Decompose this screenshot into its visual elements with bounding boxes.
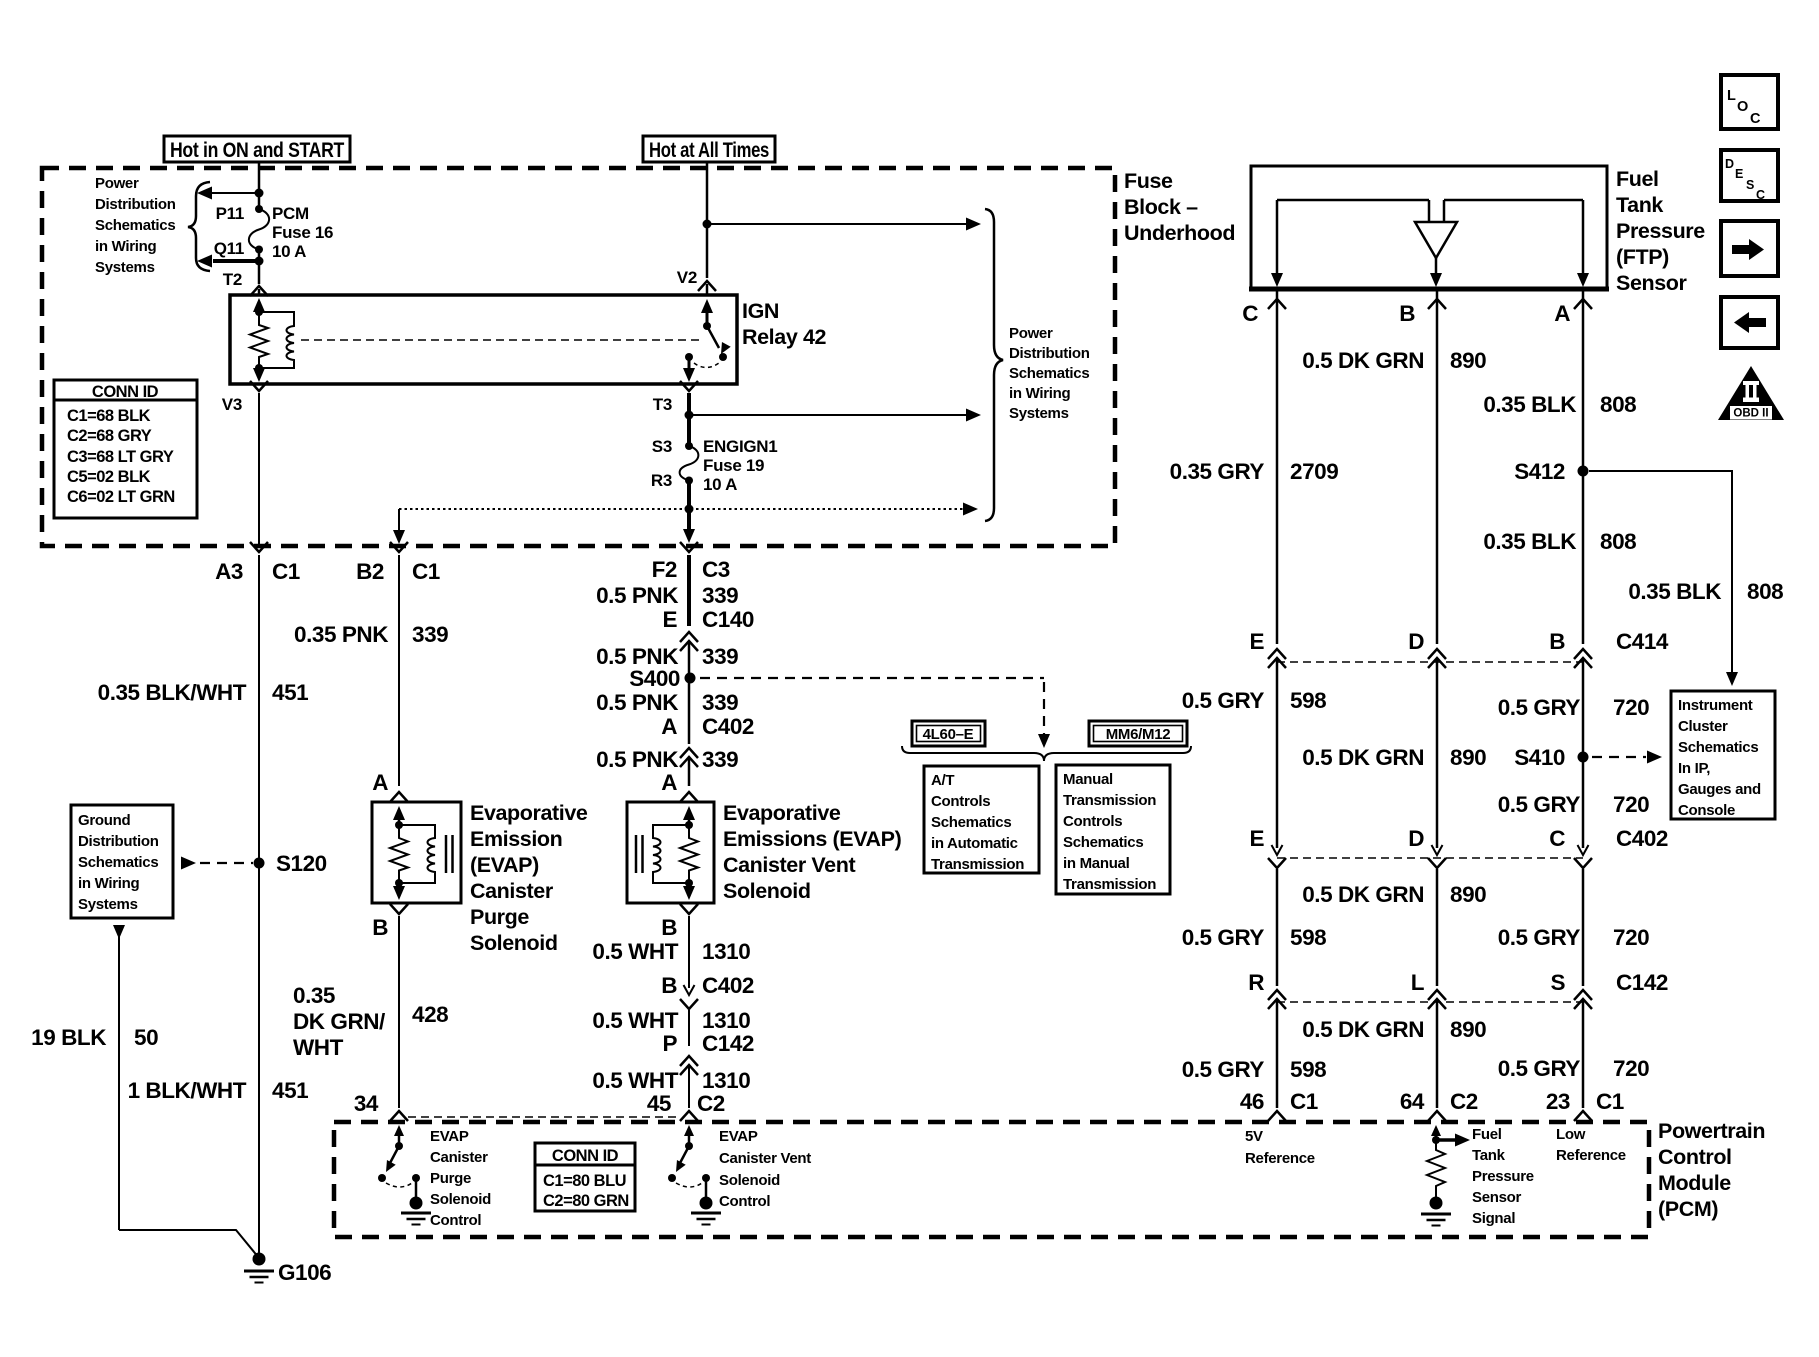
svg-text:C414: C414 — [1616, 629, 1669, 654]
wire: 1310 WHT segment C402 to C142 — [688, 1010, 690, 1046]
svg-text:A/T: A/T — [931, 772, 954, 789]
svg-text:1310: 1310 — [702, 1068, 750, 1093]
connector A3/C1 — [250, 542, 268, 552]
PCM purge driver switch — [378, 1125, 420, 1199]
PCM FTP signal input — [1427, 1125, 1470, 1198]
svg-text:C402: C402 — [702, 714, 754, 739]
resistor in relay — [250, 312, 268, 368]
connector chevron T2 — [250, 286, 268, 296]
label: Power Distribution Schematics in Wiring Systems (left) — [95, 175, 176, 276]
svg-text:Purge: Purge — [430, 1170, 471, 1187]
node: MM6/M12 tag box — [1089, 721, 1187, 746]
svg-text:C1: C1 — [412, 559, 440, 584]
svg-text:Distribution: Distribution — [78, 833, 159, 850]
svg-text:Pressure: Pressure — [1472, 1168, 1534, 1185]
connector chevron pin B vent — [680, 904, 698, 914]
svg-text:V3: V3 — [222, 395, 242, 414]
svg-text:S400: S400 — [629, 666, 680, 691]
FTP internal rail — [1277, 200, 1583, 222]
svg-text:B: B — [1399, 301, 1415, 326]
connector chevron pin B — [1428, 299, 1446, 309]
wire: S412 branch to instrument cluster — [1589, 471, 1738, 686]
wire: 1310 WHT segment C142 to PCM pin 45 — [688, 1066, 690, 1108]
label: 0.35 GRY | 2709 — [1170, 459, 1339, 484]
wire: C142 to PCM (col B) — [1436, 1000, 1439, 1108]
svg-text:0.5 GRY: 0.5 GRY — [1182, 1057, 1265, 1082]
svg-text:Power: Power — [1009, 325, 1053, 342]
svg-text:Emissions (EVAP): Emissions (EVAP) — [723, 827, 902, 851]
svg-text:339: 339 — [702, 644, 738, 669]
wire: dotted line corner down to B2 — [393, 509, 405, 544]
svg-text:34: 34 — [354, 1091, 379, 1116]
connector chevron pin 46 — [1268, 1111, 1286, 1121]
node: CONN ID table (PCM) — [535, 1143, 635, 1211]
svg-text:in Wiring: in Wiring — [78, 875, 139, 892]
svg-text:Powertrain: Powertrain — [1658, 1119, 1765, 1143]
svg-text:2709: 2709 — [1290, 459, 1338, 484]
svg-text:P: P — [662, 1031, 677, 1056]
connector F2/C3 — [680, 542, 698, 552]
svg-text:A: A — [661, 714, 677, 739]
svg-text:Power: Power — [95, 175, 139, 192]
label: pin 45 | C2 — [647, 1091, 725, 1116]
label: 0.5 GRY | 720 (col A, above S410) — [1498, 695, 1650, 720]
svg-text:0.5 DK GRN: 0.5 DK GRN — [1302, 882, 1424, 907]
svg-text:C2=68 GRY: C2=68 GRY — [67, 427, 152, 445]
svg-text:Canister: Canister — [430, 1149, 488, 1166]
label: 0.35 BLK | 808 (above S412) — [1483, 392, 1636, 417]
ground G106 — [244, 1253, 274, 1283]
svg-text:Transmission: Transmission — [1063, 876, 1156, 893]
connector C414 row — [1249, 629, 1668, 668]
sensor B1: FTP sensor box — [1249, 166, 1609, 290]
svg-text:339: 339 — [702, 690, 738, 715]
svg-text:0.5 GRY: 0.5 GRY — [1182, 688, 1265, 713]
FTP transducer triangle — [1415, 222, 1457, 258]
svg-text:(FTP): (FTP) — [1616, 245, 1669, 269]
svg-text:C6=02 LT GRN: C6=02 LT GRN — [67, 488, 175, 506]
wire: feed arrow to power distribution (top) — [707, 218, 981, 231]
label: 0.5 WHT | 1310 (above C402) — [592, 939, 750, 964]
wire: V3 down to A3 — [258, 393, 260, 546]
FTP pin B leg — [1430, 258, 1442, 287]
svg-text:B2: B2 — [356, 559, 384, 584]
svg-text:Tank: Tank — [1472, 1147, 1506, 1164]
svg-text:0.5 PNK: 0.5 PNK — [596, 583, 679, 608]
label: 0.5 WHT | 1310 (above C142) — [592, 1008, 750, 1033]
svg-text:Low: Low — [1556, 1126, 1586, 1143]
svg-text:Controls: Controls — [1063, 813, 1122, 830]
svg-text:Control: Control — [430, 1212, 481, 1229]
svg-text:Schematics: Schematics — [78, 854, 158, 871]
svg-text:0.35: 0.35 — [293, 983, 335, 1008]
svg-text:R: R — [1248, 970, 1264, 995]
svg-text:S412: S412 — [1514, 459, 1565, 484]
label: pin 64 | C2 — [1400, 1089, 1478, 1114]
wire: C142 to PCM (col C) — [1276, 1000, 1279, 1108]
node: A/T Controls Schematics box — [924, 766, 1039, 873]
relay box IGN Relay 42 — [230, 295, 737, 384]
vent solenoid terminal arrow down — [683, 883, 695, 900]
svg-text:Emission: Emission — [470, 827, 562, 851]
label: 0.5 GRY | 598 (col C low) — [1182, 1057, 1327, 1082]
connector P/C142 — [662, 1031, 754, 1075]
svg-text:19 BLK: 19 BLK — [31, 1025, 107, 1050]
svg-text:720: 720 — [1613, 792, 1649, 817]
connector B/C402 (vent control) — [661, 973, 754, 1009]
svg-text:0.5 WHT: 0.5 WHT — [592, 939, 678, 964]
connector E/C140 — [662, 607, 754, 651]
wire: C142 to PCM (col A) — [1582, 1000, 1585, 1108]
svg-text:Solenoid: Solenoid — [430, 1191, 491, 1208]
svg-text:Fuel: Fuel — [1472, 1126, 1502, 1143]
junction: T3 feed takeoff — [685, 411, 694, 420]
label: 0.5 PNK | 339 (below C402) — [596, 747, 738, 772]
svg-text:E: E — [1735, 167, 1743, 181]
svg-text:C: C — [1756, 188, 1765, 202]
svg-text:O: O — [1737, 99, 1748, 115]
svg-text:CONN ID: CONN ID — [92, 383, 159, 401]
svg-text:598: 598 — [1290, 688, 1326, 713]
junction: V2 feed takeoff — [703, 220, 712, 229]
svg-text:0.5 DK GRN: 0.5 DK GRN — [1302, 348, 1424, 373]
svg-text:Canister: Canister — [470, 879, 554, 903]
junction: fuse19 output dotted takeoff — [685, 505, 694, 514]
svg-text:Reference: Reference — [1245, 1150, 1315, 1167]
label: pin 46 | C1 — [1240, 1089, 1318, 1114]
svg-text:in Wiring: in Wiring — [1009, 385, 1070, 402]
wire: S400 dashed reference to transmission callout — [700, 678, 1050, 748]
svg-text:1 BLK/WHT: 1 BLK/WHT — [128, 1078, 247, 1103]
brace under transmission tags — [902, 746, 1191, 761]
svg-text:Systems: Systems — [1009, 405, 1069, 422]
svg-text:C2: C2 — [697, 1091, 725, 1116]
connector C142 row — [1248, 970, 1668, 1009]
wire: Q11 feed arrow (thick) — [197, 255, 259, 268]
svg-text:Solenoid: Solenoid — [719, 1172, 780, 1189]
svg-text:C402: C402 — [1616, 826, 1668, 851]
svg-text:EVAP: EVAP — [430, 1128, 469, 1145]
wire: Hot at All Times down to relay V2 — [706, 162, 709, 278]
wire: feed arrow to power distribution (middle) — [689, 409, 981, 422]
fuse F19: ENGIGN1 Fuse 19 10 A — [680, 442, 699, 485]
node: Instrument Cluster box — [1671, 691, 1775, 819]
svg-text:23: 23 — [1546, 1089, 1570, 1114]
svg-text:Systems: Systems — [78, 896, 138, 913]
svg-text:Control: Control — [1658, 1145, 1732, 1169]
svg-text:Reference: Reference — [1556, 1147, 1626, 1164]
wire: FTP pin C to C414 (598 GRY) — [1276, 290, 1279, 644]
splice S412 — [1578, 466, 1589, 477]
label: 0.5 GRY | 720 (col A mid) — [1498, 925, 1650, 950]
purge solenoid core bars — [446, 835, 453, 873]
label: 0.5 WHT | 1310 (above pin 45) — [592, 1068, 750, 1093]
svg-text:C2=80 GRN: C2=80 GRN — [543, 1192, 629, 1210]
wire: 339 PNK segment to C140 — [687, 555, 691, 626]
label: 0.35 DK GRN/ WHT | 428 — [293, 983, 448, 1060]
svg-text:890: 890 — [1450, 745, 1486, 770]
svg-text:Ground: Ground — [78, 812, 130, 829]
node: Hot in ON and START box — [164, 136, 350, 162]
label: 0.5 GRY | 598 (col C, above cluster row) — [1182, 688, 1327, 713]
vent solenoid terminal arrow up — [683, 806, 695, 822]
label: pin 23 | C1 — [1546, 1089, 1624, 1114]
label: Evaporative Emissions (EVAP) Canister Vent Solenoid — [723, 801, 902, 903]
svg-text:Hot in ON and START: Hot in ON and START — [170, 138, 344, 162]
svg-text:Sensor: Sensor — [1616, 271, 1688, 295]
svg-text:C1: C1 — [1596, 1089, 1624, 1114]
wire: 1310 WHT segment to C402 — [688, 916, 690, 988]
svg-text:Transmission: Transmission — [931, 856, 1024, 873]
label: 0.5 PNK | 339 (below S400) — [596, 690, 738, 715]
svg-text:890: 890 — [1450, 882, 1486, 907]
label: Fuel Tank Pressure (FTP) Sensor — [1616, 167, 1705, 295]
wire: P11 feed arrow — [197, 187, 259, 200]
svg-text:Schematics: Schematics — [1678, 739, 1758, 756]
svg-text:in Automatic: in Automatic — [931, 835, 1018, 852]
svg-text:B: B — [661, 973, 677, 998]
fuse F16: PCM Fuse 16 10 A — [249, 205, 269, 254]
svg-text:0.5 DK GRN: 0.5 DK GRN — [1302, 745, 1424, 770]
svg-text:0.35 PNK: 0.35 PNK — [294, 622, 389, 647]
svg-text:G106: G106 — [278, 1260, 331, 1285]
purge solenoid terminal arrow down — [393, 883, 405, 900]
relay coil winding — [259, 312, 294, 368]
svg-text:C: C — [1242, 301, 1258, 326]
PCM vent driver switch — [668, 1125, 710, 1199]
svg-text:CONN ID: CONN ID — [552, 1147, 619, 1165]
svg-text:339: 339 — [412, 622, 448, 647]
wire: fuse 19 output down (thick) — [683, 480, 695, 543]
svg-text:WHT: WHT — [293, 1035, 344, 1060]
label: PCM Fuse 16 10 A — [272, 204, 333, 261]
svg-text:Control: Control — [719, 1193, 770, 1210]
svg-text:S3: S3 — [652, 437, 672, 456]
svg-text:T3: T3 — [653, 395, 672, 414]
svg-text:451: 451 — [272, 1078, 308, 1103]
ground: purge driver — [401, 1197, 431, 1225]
svg-text:Transmission: Transmission — [1063, 792, 1156, 809]
node: Manual Transmission Controls box — [1056, 765, 1170, 894]
svg-text:Distribution: Distribution — [1009, 345, 1090, 362]
svg-text:Signal: Signal — [1472, 1210, 1515, 1227]
wire: 451 BLK/WHT — [258, 555, 260, 1255]
connector chevron pin A — [1574, 299, 1592, 309]
svg-text:339: 339 — [702, 583, 738, 608]
svg-text:IGN: IGN — [742, 299, 779, 323]
vent solenoid winding — [653, 825, 689, 883]
svg-text:Instrument: Instrument — [1678, 697, 1753, 714]
connector chevron pin B purge — [390, 904, 408, 914]
svg-text:L: L — [1411, 970, 1425, 995]
svg-text:10 A: 10 A — [272, 242, 306, 261]
svg-text:ENGIGN1: ENGIGN1 — [703, 437, 777, 456]
svg-text:598: 598 — [1290, 925, 1326, 950]
brace left power distribution — [188, 182, 210, 271]
solenoid L2: EVAP canister vent solenoid box — [627, 802, 714, 903]
svg-text:OBD II: OBD II — [1733, 408, 1768, 420]
label: 0.5 DK GRN | 890 (col B low) — [1302, 1017, 1486, 1042]
svg-text:64: 64 — [1400, 1089, 1425, 1114]
svg-text:Cluster: Cluster — [1678, 718, 1728, 735]
svg-text:0.35 BLK/WHT: 0.35 BLK/WHT — [98, 680, 247, 705]
svg-text:C402: C402 — [702, 973, 754, 998]
svg-text:MM6/M12: MM6/M12 — [1106, 726, 1171, 743]
label: ENGIGN1 Fuse 19 10 A — [703, 437, 777, 494]
label: Powertrain Control Module (PCM) — [1658, 1119, 1765, 1221]
svg-text:E: E — [1249, 826, 1264, 851]
svg-text:5V: 5V — [1245, 1128, 1263, 1145]
svg-text:A: A — [372, 770, 388, 795]
svg-text:0.5 GRY: 0.5 GRY — [1498, 925, 1581, 950]
svg-text:45: 45 — [647, 1091, 671, 1116]
svg-text:Pressure: Pressure — [1616, 219, 1705, 243]
relay actuation dashed line — [301, 339, 700, 341]
svg-text:Fuse 19: Fuse 19 — [703, 456, 764, 475]
svg-text:Sensor: Sensor — [1472, 1189, 1522, 1206]
svg-text:0.5 GRY: 0.5 GRY — [1498, 792, 1581, 817]
splice S410 — [1578, 752, 1589, 763]
node: Hot at All Times box — [643, 136, 775, 162]
label: B2 | C1 — [356, 559, 440, 584]
svg-text:C140: C140 — [702, 607, 754, 632]
wire: 339 PNK segment C402 to vent solenoid — [688, 758, 691, 786]
connector chevron pin C — [1268, 299, 1286, 309]
label: A3 | C1 — [215, 559, 300, 584]
svg-text:S120: S120 — [276, 851, 327, 876]
svg-text:428: 428 — [412, 1002, 448, 1027]
icon: back arrow box — [1721, 297, 1778, 348]
connector chevron pin 64 — [1428, 1111, 1446, 1121]
wire: 428 DK GRN/WHT down to PCM pin 34 — [398, 916, 400, 1108]
svg-text:PCM: PCM — [272, 204, 309, 223]
svg-text:Module: Module — [1658, 1171, 1731, 1195]
svg-text:Gauges and: Gauges and — [1678, 781, 1761, 798]
icon: OBD II triangle — [1718, 366, 1784, 420]
svg-text:S: S — [1746, 178, 1754, 192]
svg-text:0.35 GRY: 0.35 GRY — [1170, 459, 1265, 484]
svg-text:598: 598 — [1290, 1057, 1326, 1082]
svg-text:Schematics: Schematics — [931, 814, 1011, 831]
svg-text:C1=68 BLK: C1=68 BLK — [67, 407, 151, 425]
svg-text:S410: S410 — [1514, 745, 1565, 770]
label: 0.5 GRY | 598 (col C mid) — [1182, 925, 1327, 950]
svg-text:P11: P11 — [216, 204, 244, 223]
label: 0.5 PNK | 339 (above S400) — [596, 644, 738, 669]
svg-text:Q11: Q11 — [214, 239, 244, 258]
label: Fuse Block - Underhood — [1124, 169, 1235, 245]
svg-text:Schematics: Schematics — [95, 217, 175, 234]
svg-text:Schematics: Schematics — [1063, 834, 1143, 851]
label: 0.5 PNK | 339 (above C140) — [596, 583, 738, 608]
svg-text:C: C — [1549, 826, 1565, 851]
junction: vent coil top — [685, 821, 693, 829]
svg-text:46: 46 — [1240, 1089, 1264, 1114]
svg-text:10 A: 10 A — [703, 475, 737, 494]
ground: vent driver — [691, 1197, 721, 1225]
label: EVAP Canister Vent Solenoid Control — [719, 1128, 811, 1210]
connector chevron pin A purge — [390, 792, 408, 802]
svg-text:B: B — [372, 915, 388, 940]
junction on T2 feed — [255, 189, 264, 198]
svg-text:0.5 WHT: 0.5 WHT — [592, 1068, 678, 1093]
svg-text:B: B — [1549, 629, 1565, 654]
svg-text:0.5 PNK: 0.5 PNK — [596, 747, 679, 772]
svg-text:A: A — [1554, 301, 1570, 326]
icon: DESC box — [1721, 150, 1778, 202]
wire: C402 to C142 (col C) — [1276, 869, 1279, 986]
connector C402 row (right) — [1249, 826, 1668, 868]
wire: 339 PNK to purge solenoid — [398, 555, 400, 786]
svg-text:1310: 1310 — [702, 939, 750, 964]
connector chevron V2 — [698, 281, 716, 291]
wire: ground distribution drop (19 BLK 50) — [113, 925, 259, 1258]
svg-text:(PCM): (PCM) — [1658, 1197, 1718, 1221]
purge solenoid terminal arrow up — [393, 806, 405, 822]
svg-text:Controls: Controls — [931, 793, 990, 810]
label: 0.35 BLK/WHT | 451 — [98, 680, 309, 705]
relay switch pivot — [703, 322, 711, 330]
svg-text:Solenoid: Solenoid — [470, 931, 558, 955]
wire: C402 to C142 (col A) — [1582, 869, 1585, 986]
label: 0.5 DK GRN | 890 (col B at S410) — [1302, 745, 1486, 770]
svg-text:C1: C1 — [272, 559, 300, 584]
junction: purge coil top — [395, 821, 403, 829]
brace right power distribution — [985, 209, 1003, 521]
svg-text:D: D — [1725, 157, 1734, 171]
relay output arrow down — [683, 357, 695, 382]
svg-text:C3=68 LT GRY: C3=68 LT GRY — [67, 448, 174, 466]
svg-text:Tank: Tank — [1616, 193, 1663, 217]
FTP pin A leg — [1577, 200, 1589, 287]
label: 0.5 DK GRN | 890 (col B mid) — [1302, 882, 1486, 907]
svg-text:DK GRN/: DK GRN/ — [293, 1009, 386, 1034]
junction: coil top — [255, 308, 263, 316]
connector A/C402 — [661, 714, 754, 767]
splice S400 — [685, 673, 696, 684]
svg-text:Solenoid: Solenoid — [723, 879, 811, 903]
connector B2/C1 — [390, 542, 408, 552]
svg-text:808: 808 — [1747, 579, 1783, 604]
wire: V2 stub into relay — [706, 284, 709, 296]
svg-text:V2: V2 — [677, 268, 697, 287]
relay coil-side terminal arrow up — [253, 298, 265, 312]
connector chevron pin A vent — [680, 792, 698, 802]
wire: C402 to C142 (col B) — [1436, 869, 1439, 986]
purge solenoid resistor — [390, 825, 408, 883]
svg-text:0.5 GRY: 0.5 GRY — [1498, 1056, 1581, 1081]
splice S120 — [254, 858, 265, 869]
svg-text:0.5 DK GRN: 0.5 DK GRN — [1302, 1017, 1424, 1042]
svg-text:D: D — [1408, 826, 1424, 851]
junction: vent coil bottom — [685, 879, 693, 887]
svg-text:S: S — [1550, 970, 1565, 995]
svg-text:50: 50 — [134, 1025, 158, 1050]
label: Fuel Tank Pressure Sensor Signal — [1472, 1126, 1534, 1227]
svg-text:Canister Vent: Canister Vent — [723, 853, 855, 877]
relay switch thrown contact — [719, 353, 727, 361]
relay switch arrow up — [701, 299, 713, 326]
label: Evaporative Emission (EVAP) Canister Purge Solenoid — [470, 801, 588, 955]
wire: C414 to C402 (col A) — [1582, 659, 1585, 848]
svg-text:C5=02 BLK: C5=02 BLK — [67, 468, 151, 486]
svg-text:Hot at All Times: Hot at All Times — [649, 138, 769, 162]
svg-text:Console: Console — [1678, 802, 1735, 819]
ground: FTP signal pulldown — [1421, 1197, 1451, 1226]
svg-text:C3: C3 — [702, 557, 730, 582]
svg-text:1310: 1310 — [702, 1008, 750, 1033]
vent solenoid resistor — [680, 825, 698, 883]
